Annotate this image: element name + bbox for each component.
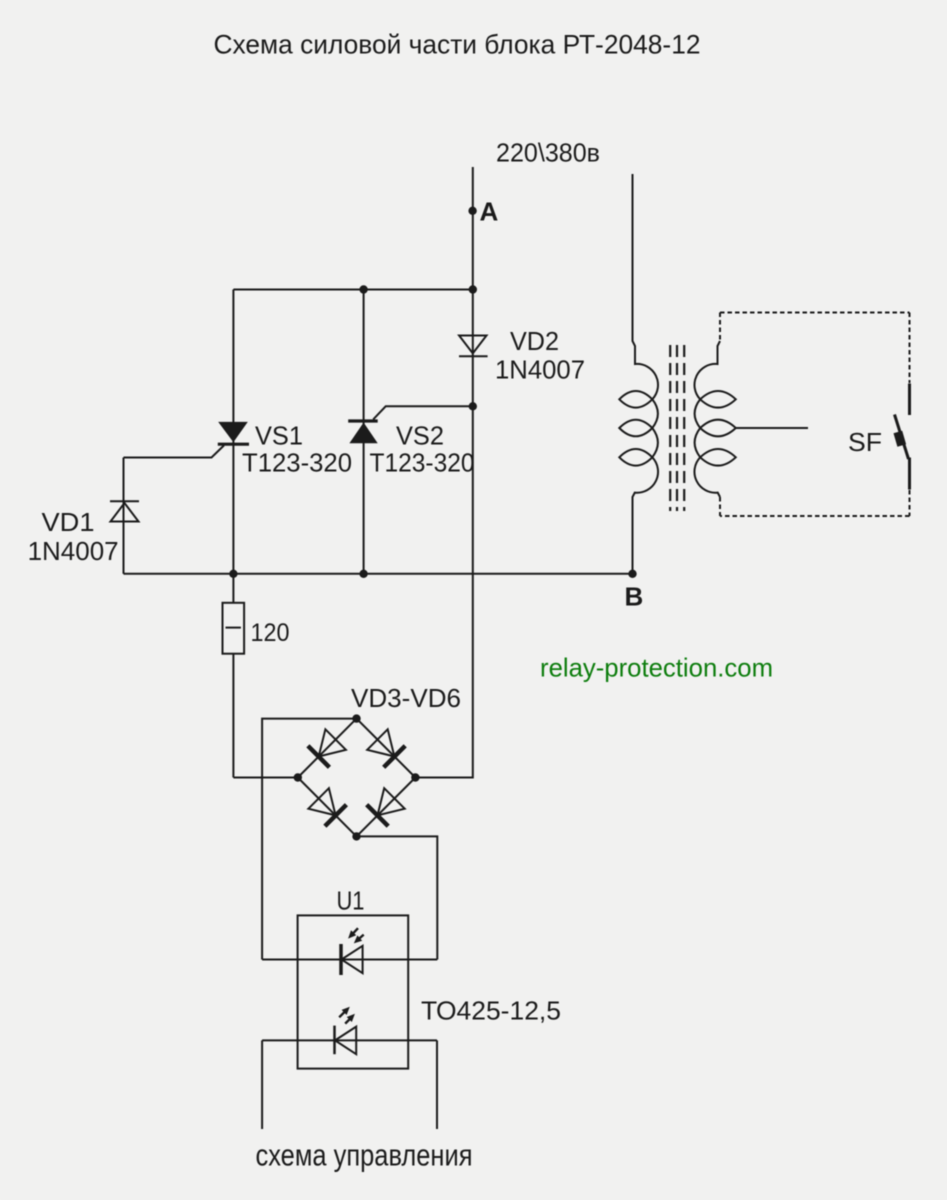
breaker SF [895, 384, 910, 490]
node top rail / VD2 [469, 285, 477, 293]
svg-text:1N4007: 1N4007 [495, 355, 585, 385]
node bridge right [411, 773, 419, 781]
transformer primary winding [619, 174, 658, 574]
wire VS2 gate [373, 406, 473, 419]
wire secondary middle tap [736, 427, 808, 429]
LED 2 [335, 1007, 357, 1054]
svg-text:B: B [625, 582, 644, 612]
node bridge left [294, 773, 302, 781]
secondary enclosure dashed box [720, 313, 910, 517]
node bottom rail / VS2 [359, 570, 367, 578]
node VS2 gate / VD2 branch [469, 402, 477, 410]
svg-text:Т123-320: Т123-320 [242, 448, 352, 478]
wire VS1 branch vertical [232, 290, 234, 574]
svg-text:ТО425-12,5: ТО425-12,5 [421, 996, 561, 1026]
svg-text:relay-protection.com: relay-protection.com [540, 653, 773, 683]
diode VD6 (bottom-right) [367, 788, 405, 826]
wire bridge top to LED1 [262, 719, 356, 960]
optocoupler U1 box [298, 915, 409, 1068]
svg-text:Т123-320: Т123-320 [370, 448, 475, 478]
wire LED2 right drop [436, 1040, 438, 1129]
diode VD1 [110, 501, 139, 521]
svg-text:120: 120 [251, 619, 290, 647]
node bottom rail / VS1 [229, 570, 237, 578]
node A [468, 207, 476, 215]
diode VD4 (top-right) [367, 729, 405, 767]
wire resistor to bridge left node [233, 777, 297, 779]
wire VD2 branch vertical [415, 290, 472, 778]
transformer secondary winding [694, 341, 735, 497]
resistor R 120 [223, 574, 245, 778]
bridge diamond wires [298, 719, 416, 837]
svg-text:VS2: VS2 [396, 421, 444, 451]
transformer core [670, 345, 684, 511]
diode VD2 [459, 336, 488, 357]
svg-text:VS1: VS1 [255, 421, 303, 451]
thyristor VS1 [218, 422, 249, 444]
diode VD3 (top-left) [308, 729, 346, 767]
svg-text:VD2: VD2 [510, 326, 559, 356]
wire bottom rail [124, 573, 633, 575]
svg-text:SF: SF [848, 427, 882, 457]
wire LED2 row [262, 1039, 437, 1041]
svg-text:VD3-VD6: VD3-VD6 [351, 683, 461, 713]
svg-text:U1: U1 [337, 886, 365, 916]
node B [628, 570, 636, 578]
svg-text:1N4007: 1N4007 [28, 536, 119, 566]
svg-text:схема управления: схема управления [256, 1138, 473, 1173]
svg-text:VD1: VD1 [42, 507, 95, 537]
node top rail / VS2 [359, 285, 367, 293]
thyristor VS2 [348, 421, 378, 443]
wire VD1 branch vertical [123, 458, 125, 574]
wire LED1 row [262, 959, 437, 961]
wire phase A vertical [472, 167, 474, 290]
svg-text:Схема силовой части блока РТ-: Схема силовой части блока РТ-2048-12 [214, 30, 701, 60]
LED 1 [341, 928, 364, 975]
wire top rail [233, 289, 472, 291]
wire VS2 branch vertical [363, 290, 365, 574]
wire VS1 gate [124, 445, 225, 457]
node bridge top [352, 714, 360, 722]
wire bridge bottom to LED1 [357, 836, 438, 959]
diode VD5 (bottom-left) [308, 788, 346, 826]
svg-text:A: A [480, 197, 499, 227]
node bridge bottom [352, 832, 360, 840]
wire LED2 left drop [261, 1040, 263, 1129]
svg-text:220\380в: 220\380в [496, 138, 600, 168]
